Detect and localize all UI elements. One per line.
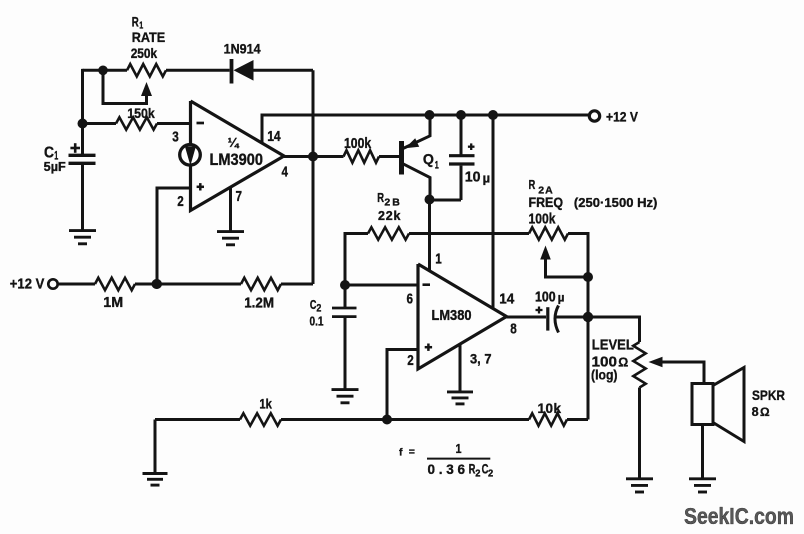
svg-text:Ω: Ω (760, 405, 770, 419)
svg-text:1: 1 (435, 159, 439, 171)
svg-text:1.2M: 1.2M (244, 296, 274, 312)
svg-text:150k: 150k (127, 105, 155, 121)
svg-text:0.36: 0.36 (428, 462, 466, 477)
svg-text:Q: Q (423, 151, 434, 168)
svg-text:8: 8 (752, 404, 759, 419)
svg-text:LM380: LM380 (432, 308, 472, 324)
svg-text:8: 8 (510, 322, 517, 338)
svg-text:¼: ¼ (228, 135, 240, 150)
svg-text:3, 7: 3, 7 (470, 351, 492, 367)
svg-text:10: 10 (465, 170, 481, 186)
svg-text:=: = (409, 446, 415, 458)
svg-text:FREQ: FREQ (529, 195, 564, 210)
svg-text:10k: 10k (538, 401, 562, 416)
svg-text:250k: 250k (131, 46, 158, 61)
svg-text:100k: 100k (529, 212, 556, 228)
svg-text:+12 V: +12 V (606, 109, 639, 125)
svg-text:1N914: 1N914 (224, 42, 261, 57)
svg-text:R: R (529, 177, 536, 192)
svg-text:4: 4 (282, 164, 289, 180)
svg-text:(log): (log) (591, 368, 618, 383)
svg-text:2: 2 (177, 194, 184, 210)
svg-text:SPKR: SPKR (752, 388, 785, 403)
svg-text:14: 14 (267, 129, 281, 145)
svg-text:2: 2 (407, 353, 414, 369)
svg-text:RATE: RATE (132, 30, 166, 45)
svg-text:R: R (132, 15, 139, 30)
svg-text:1k: 1k (259, 396, 272, 411)
svg-text:14: 14 (499, 292, 514, 308)
svg-text:0.1: 0.1 (310, 315, 324, 329)
svg-text:µ: µ (558, 293, 565, 305)
svg-text:µ: µ (483, 171, 491, 186)
svg-text:3: 3 (172, 130, 179, 146)
svg-text:+12 V: +12 V (10, 277, 45, 293)
svg-text:1: 1 (435, 252, 442, 268)
svg-text:6: 6 (407, 292, 414, 308)
svg-text:100: 100 (535, 290, 556, 306)
svg-text:2B: 2B (384, 197, 400, 209)
svg-text:2: 2 (488, 467, 493, 479)
svg-text:2: 2 (316, 303, 321, 315)
svg-text:22k: 22k (378, 209, 401, 223)
svg-text:LEVEL: LEVEL (592, 337, 634, 354)
svg-text:2: 2 (475, 467, 480, 479)
svg-text:Ω: Ω (618, 356, 628, 370)
svg-text:SeekIC.com: SeekIC.com (684, 503, 794, 529)
svg-text:100k: 100k (344, 136, 371, 152)
svg-text:LM3900: LM3900 (210, 150, 264, 169)
svg-text:1: 1 (456, 442, 462, 456)
svg-text:1M: 1M (103, 295, 123, 311)
svg-text:f: f (399, 447, 403, 459)
svg-text:5µF: 5µF (44, 160, 66, 174)
svg-text:(250·1500 Hz): (250·1500 Hz) (574, 195, 658, 210)
svg-text:7: 7 (236, 189, 243, 205)
